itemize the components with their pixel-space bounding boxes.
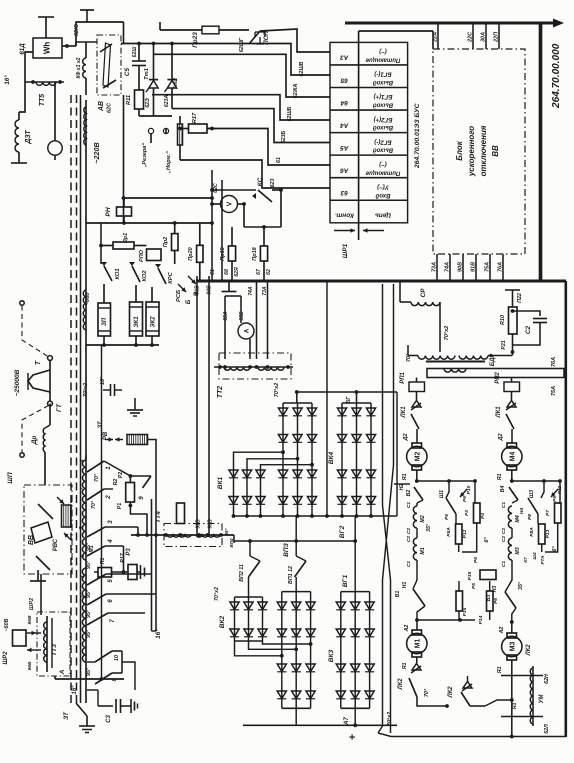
svg-text:ВК4: ВК4 (328, 451, 335, 464)
svg-text:РП1: РП1 (400, 372, 406, 384)
ground right of С3 (130, 699, 132, 713)
wire dashed bottom to ШП (22, 406, 49, 453)
wire right drop x397 (396, 392, 398, 516)
diode ВП (306, 664, 315, 672)
fuse Пр2 (174, 223, 176, 234)
wire М2 output bus (417, 480, 475, 482)
svg-text:63: 63 (340, 189, 348, 196)
wire А7 bottom bus (243, 724, 397, 726)
winding СЗ-С2 М3 (508, 538, 512, 560)
diode ВК3 (365, 691, 374, 699)
svg-text:ЛК1: ЛК1 (401, 406, 407, 418)
main winding rail (85, 100, 87, 460)
svg-text:R17: R17 (192, 112, 198, 123)
svg-text:ВПЗ: ВПЗ (283, 542, 290, 556)
contactor ЗП (98, 303, 111, 336)
svg-text:623: 623 (270, 179, 276, 188)
diode ВПЗ (307, 497, 316, 505)
solid rail left (80, 95, 82, 703)
switch ЛК2 mid (463, 682, 472, 689)
switch ВП1 12 (295, 541, 297, 556)
wire Пр23 feeder (123, 21, 125, 23)
wire А horizontal (55, 678, 124, 680)
svg-text:В2: В2 (406, 490, 412, 497)
svg-text:М2: М2 (415, 452, 422, 462)
wire АВ top riser (123, 22, 125, 44)
svg-text:70°: 70° (406, 353, 412, 362)
lamp circle near ТТ5 (48, 141, 62, 155)
svg-text:62С: 62С (213, 183, 219, 193)
svg-text:Р5: Р5 (471, 583, 477, 589)
svg-text:ШП: ШП (7, 472, 14, 483)
svg-text:623А: 623А (164, 95, 170, 107)
capacitor С5 (132, 60, 146, 62)
svg-text:68: 68 (224, 269, 230, 275)
svg-text:Пр15: Пр15 (220, 246, 226, 260)
wire R11 bottom link (139, 115, 172, 117)
svg-text:Р5А: Р5А (446, 527, 452, 537)
diode ВК1 (242, 470, 251, 478)
svg-text:Д2: Д2 (498, 433, 504, 441)
svg-text:Я1: Я1 (402, 474, 408, 482)
svg-text:ВГ2: ВГ2 (339, 525, 346, 538)
wire 62Ю riser (76, 22, 124, 46)
svg-text:R10: R10 (500, 315, 506, 325)
circuit breaker АВ dash-dot box (97, 35, 121, 95)
resistor Р5 box lower (456, 591, 463, 611)
diode ВК3 (336, 691, 345, 699)
wire riser group2 (296, 392, 298, 403)
svg-text:61: 61 (276, 157, 282, 163)
switch КО1 (104, 266, 112, 281)
svg-text:Т: Т (35, 360, 42, 365)
svg-text:РПО: РПО (139, 249, 145, 262)
ТТ4 winding (131, 534, 234, 536)
svg-text:Р1: Р1 (117, 503, 123, 510)
diode group ВПЗ top bus (283, 402, 312, 404)
diode ВП (292, 664, 301, 672)
relay РП1 box (416, 378, 418, 383)
diode ВК4 (337, 497, 346, 505)
svg-text:62ШБ: 62ШБ (287, 106, 293, 121)
resistor Р8А box (539, 524, 546, 544)
svg-text:Р5: Р5 (444, 514, 450, 520)
svg-text:М3: М3 (510, 642, 517, 652)
svg-text:П22: П22 (517, 293, 523, 303)
svg-text:70°х2: 70°х2 (444, 326, 450, 340)
svg-text:Питающие: Питающие (365, 57, 400, 63)
svg-text:Пр23: Пр23 (192, 32, 199, 48)
fuse Пр23 (202, 26, 219, 34)
diode block lower bottom bus ВП (282, 707, 311, 709)
svg-text:Пр20: Пр20 (188, 247, 194, 260)
dashed rail pair left (70, 95, 72, 703)
diode ВП (306, 602, 315, 610)
diode ВП (277, 691, 286, 699)
capacitor C2 (513, 311, 541, 316)
wires contactor tops (103, 284, 105, 303)
svg-text:Выход: Выход (373, 79, 393, 85)
svg-text:С1: С1 (406, 561, 412, 568)
svg-text:А7: А7 (343, 716, 350, 725)
transformer ТТ2 dash-dot box (219, 353, 291, 379)
svg-text:Др: Др (31, 436, 38, 446)
resistor R10 П22 (505, 289, 520, 291)
diode ВК4 (352, 470, 361, 478)
wire СР right drop (439, 302, 441, 352)
svg-text:ЭК1: ЭК1 (134, 316, 140, 327)
svg-text:Тт1: Тт1 (144, 68, 150, 80)
tap 8 (95, 673, 112, 684)
diode ВПЗ (278, 497, 287, 505)
svg-text:5: 5 (108, 579, 114, 583)
winding С1-С2 М4 (508, 506, 512, 528)
relay РПО (147, 249, 162, 261)
svg-text:Р12: Р12 (462, 529, 468, 538)
resistor РВС hatched (62, 505, 72, 527)
svg-text:Пр1: Пр1 (123, 233, 129, 243)
svg-text:96Б: 96Б (27, 661, 33, 670)
wire fuse to ПСП (219, 29, 249, 31)
svg-text:76А: 76А (551, 357, 557, 367)
svg-text:Ш1: Ш1 (439, 490, 445, 498)
switch ВВ dash-dot box (24, 485, 72, 574)
svg-text:ЛК2: ЛК2 (526, 644, 532, 657)
svg-text:ЛК1: ЛК1 (496, 406, 502, 418)
svg-text:ТТ4: ТТ4 (155, 511, 162, 523)
svg-text:62ШВ: 62ШВ (299, 61, 305, 76)
switch КС (212, 189, 256, 191)
diode group ВГ1/ВК3 columns (341, 591, 370, 593)
diode ВП (306, 691, 315, 699)
svg-text:К7: К7 (523, 557, 528, 563)
diode ВК1 (256, 470, 265, 478)
transformer ТТ3 dash-dot box (37, 612, 70, 676)
svg-text:ВК1: ВК1 (217, 476, 224, 489)
voltmeter V (221, 196, 238, 213)
terminal stubs top of БУС (22А 22С 30А 22П) (437, 25, 439, 50)
ground cap right of Р17 (137, 571, 141, 573)
svg-text:С1: С1 (501, 561, 507, 568)
svg-text:16°: 16° (154, 629, 162, 639)
svg-text:90В: 90В (458, 262, 464, 272)
svg-text:У(~): У(~) (377, 183, 389, 189)
svg-text:Р7: Р7 (545, 510, 551, 516)
svg-text:АВ: АВ (98, 101, 105, 112)
diode ВК3 (336, 629, 345, 637)
svg-text:74А: 74А (248, 286, 254, 296)
diode ВК3 (365, 629, 374, 637)
svg-text:ВП2 11: ВП2 11 (239, 564, 245, 582)
svg-text:С2: С2 (406, 528, 412, 535)
diode ВК1 (242, 497, 251, 505)
svg-text:А2: А2 (404, 625, 410, 633)
ШР2 arrows (27, 632, 36, 634)
switch ЛК1 left (416, 392, 418, 401)
svg-text:Р21: Р21 (501, 340, 507, 349)
diode ВПЗ (278, 408, 287, 416)
svg-text:70°х2: 70°х2 (83, 383, 89, 397)
thyristor Тт2 symbol (171, 44, 173, 81)
node circle top (48, 356, 53, 361)
wire long horizontal y223 (86, 222, 213, 224)
wire ВК4 column (356, 403, 358, 516)
wire thick mid horizontal bus (196, 280, 566, 283)
diode ВПЗ (278, 470, 287, 478)
svg-text:ШР1: ШР1 (342, 243, 349, 258)
wire ПСП to row А3 (260, 29, 330, 52)
wire ВП column (281, 592, 283, 709)
switch КО2 (132, 266, 140, 282)
wire riser 70° (407, 345, 409, 356)
wire ВП column (310, 592, 312, 709)
capacitor С4 16° (103, 389, 111, 391)
svg-text:96В: 96В (27, 615, 33, 624)
svg-text:(~): (~) (379, 48, 387, 54)
svg-text:90В: 90В (208, 519, 214, 529)
diode ВК2 (244, 602, 253, 610)
svg-text:А3: А3 (340, 54, 350, 61)
svg-text:А5: А5 (340, 144, 350, 151)
svg-text:Р3: Р3 (126, 548, 132, 556)
diode ВК4 (352, 497, 361, 505)
tap 5 (87, 574, 106, 585)
svg-text:РТА: РТА (540, 555, 545, 565)
winding С1-С2 М2 (416, 503, 418, 506)
diode ВПЗ (278, 435, 287, 443)
wire 62ШБ to row А4 (152, 95, 330, 120)
svg-text:БГ2(-): БГ2(-) (374, 138, 391, 144)
wire ЛК2 bottom link (485, 700, 512, 706)
wire down from TT5 to ДЗТ (19, 82, 25, 112)
tap 7 (87, 613, 108, 625)
wire 623Б to row А5 (172, 109, 330, 143)
arrow Р6 (460, 489, 467, 497)
wire thick top bus with arrow (345, 22, 558, 25)
tap rails to right (121, 651, 123, 673)
diode group ВК4 top bus (342, 402, 371, 404)
diode ВК4 (337, 408, 346, 416)
svg-text:62Ю: 62Ю (74, 24, 80, 36)
svg-text:16°: 16° (72, 685, 78, 695)
svg-text:ЗП: ЗП (102, 317, 108, 326)
wire В2 link left (394, 483, 410, 485)
svg-text:Н1: Н1 (402, 582, 408, 589)
svg-text:6: 6 (80, 554, 86, 557)
svg-text:Wh: Wh (43, 42, 52, 54)
wire risers from upper block (295, 516, 297, 541)
wire winding bottom (85, 695, 87, 703)
ammeter А loop (224, 296, 226, 359)
resistor R17 (189, 124, 208, 133)
diode ВП (292, 602, 301, 610)
wire ВК3 column (369, 592, 371, 709)
svg-text:+: + (347, 734, 359, 740)
svg-text:М3: М3 (515, 547, 521, 554)
wire 73А drop to ТТ2 (267, 281, 269, 359)
svg-text:ЗТ: ЗТ (63, 711, 70, 720)
wire 623 to row 63 (180, 160, 330, 188)
winding bumps mid (83, 290, 86, 330)
svg-text:64: 64 (340, 99, 348, 106)
svg-text:Питающие: Питающие (365, 169, 400, 175)
diode ВПЗ (307, 408, 316, 416)
svg-text:Выход: Выход (373, 102, 393, 108)
rail x222 label 62С (221, 180, 223, 281)
svg-text:П1: П1 (100, 558, 106, 565)
diode ВПЗ (293, 470, 302, 478)
svg-text:С1: С1 (406, 502, 412, 509)
svg-text:70°: 70° (91, 500, 97, 509)
ТТ3 winding (46, 616, 48, 672)
fuse Пр15 (231, 227, 233, 246)
svg-text:95°: 95° (224, 528, 230, 535)
svg-text:70°: 70° (94, 473, 100, 482)
arrow Я1 under М1 (416, 657, 418, 663)
svg-text:62Я: 62Я (234, 267, 240, 277)
thyristor Тт1 (138, 44, 140, 62)
svg-text:62С: 62С (107, 102, 113, 113)
resistor Р14 box lower (487, 591, 494, 611)
ВВ slanted contact (31, 522, 52, 543)
svg-text:Н4: Н4 (519, 508, 525, 515)
wire cross diagonal 1 (383, 284, 391, 733)
wire ВПЗ column (311, 403, 313, 516)
winding УМ (532, 666, 534, 726)
svg-text:ДЗТ: ДЗТ (25, 130, 32, 145)
svg-text:35°: 35° (518, 581, 524, 590)
svg-text:„Резерв“: „Резерв“ (142, 142, 148, 168)
svg-text:ВК3: ВК3 (328, 649, 335, 662)
diode ВК4 (352, 435, 361, 443)
winding БДР row (418, 356, 455, 360)
node circle bottom (48, 401, 53, 406)
diode ВП (292, 691, 301, 699)
diode ВП (277, 602, 286, 610)
svg-text:Р3: Р3 (464, 510, 470, 516)
wires branch A cluster (446, 481, 449, 498)
svg-text:95°: 95° (86, 589, 92, 598)
svg-text:6°: 6° (484, 537, 490, 543)
diode ВК2 (230, 602, 239, 610)
winding С2-С1 М1 (413, 538, 417, 560)
switch ЛК1 right (511, 392, 513, 401)
main winding lower section (85, 455, 87, 695)
diode ВК2 (244, 629, 253, 637)
svg-text:М1: М1 (415, 639, 422, 649)
diode ВК3 (351, 602, 360, 610)
svg-text:70°х2: 70°х2 (274, 383, 280, 397)
switch Норм/Резерв contacts (148, 128, 153, 133)
svg-text:С1: С1 (501, 502, 507, 509)
ВВ blade (38, 504, 53, 519)
diode group ВК2 top bus (235, 596, 263, 598)
connector table ШР1 grid (330, 42, 408, 222)
svg-text:Р4: Р4 (480, 513, 486, 519)
svg-text:ВВ: ВВ (491, 145, 500, 157)
svg-text:76А: 76А (498, 262, 504, 272)
relay РН (117, 207, 132, 216)
svg-text:М4: М4 (510, 452, 517, 462)
wire thick vertical bus right of table (539, 22, 541, 283)
svg-text:2: 2 (80, 595, 86, 599)
connector ШР2 box (13, 630, 27, 646)
svg-text:3: 3 (80, 575, 86, 578)
svg-text:Выход: Выход (373, 124, 393, 130)
diode block lower bottom bus ВК3 (341, 707, 370, 709)
wire М1 top bus (417, 619, 475, 621)
diode group ВК1 columns with feeders (234, 452, 284, 516)
svg-text:Я1: Я1 (497, 667, 503, 675)
svg-text:62ШГ: 62ШГ (239, 37, 245, 52)
svg-text:95°: 95° (86, 609, 92, 618)
wire table top to БУС box (358, 31, 360, 42)
svg-text:264.70.00.01ЭЗ БУС: 264.70.00.01ЭЗ БУС (414, 103, 421, 169)
svg-text:А: А (59, 669, 66, 675)
pantograph Т symbol (28, 370, 50, 392)
svg-text:В4: В4 (500, 486, 506, 493)
svg-text:R2: R2 (113, 479, 119, 486)
svg-text:ВГ1: ВГ1 (342, 574, 349, 587)
svg-text:75А: 75А (551, 386, 557, 396)
reactor ДЗТ coil (18, 112, 20, 120)
svg-text:65: 65 (340, 76, 348, 83)
ВВ bottom bar (30, 580, 46, 582)
svg-text:67: 67 (256, 268, 262, 275)
svg-text:ВП1 12: ВП1 12 (288, 566, 294, 584)
svg-text:62: 62 (266, 269, 272, 275)
svg-text:95°: 95° (86, 560, 92, 569)
svg-text:95°: 95° (86, 629, 92, 638)
diode ВК3 (365, 602, 374, 610)
svg-text:Р8А: Р8А (529, 527, 535, 537)
transformer ТТ2 winding (214, 366, 293, 368)
diode ВК4 (337, 435, 346, 443)
svg-text:7: 7 (110, 619, 116, 623)
motor М3 (511, 622, 513, 633)
svg-text:95°: 95° (86, 667, 92, 676)
switch ВП2 11 (249, 541, 251, 556)
switch КРС (158, 268, 166, 284)
svg-text:ШР2: ШР2 (29, 598, 35, 610)
wire 74А drop to ТТ2 (256, 281, 258, 359)
wire ВПЗ column (297, 403, 299, 516)
resistor РБ box (480, 570, 496, 580)
svg-text:Ш4: Ш4 (532, 552, 537, 560)
arrow Р11 (551, 489, 558, 497)
svg-text:16°: 16° (4, 75, 11, 85)
svg-text:22А: 22А (433, 32, 439, 43)
svg-text:ТТ5: ТТ5 (39, 94, 46, 106)
connector ШР1 divider arrows (358, 223, 360, 240)
svg-text:отключения: отключения (479, 125, 488, 176)
svg-text:Б: Б (185, 299, 192, 304)
wire lamp bottom stub (54, 155, 56, 160)
svg-text:2: 2 (105, 495, 112, 500)
wire ТТ4 to lower diode block (233, 535, 235, 543)
diode ВК3 (336, 602, 345, 610)
svg-text:УМ: УМ (539, 693, 545, 703)
svg-text:БГ1(+): БГ1(+) (374, 93, 393, 99)
svg-text:Р14: Р14 (478, 615, 484, 624)
wire М4 output bus (512, 480, 560, 482)
svg-text:3: 3 (107, 520, 114, 524)
wire ВК2 column (262, 597, 264, 641)
svg-text:22С: 22С (468, 31, 474, 43)
switch Ш3 (528, 498, 538, 514)
motor М1 (416, 620, 418, 630)
diode ВПЗ (293, 497, 302, 505)
